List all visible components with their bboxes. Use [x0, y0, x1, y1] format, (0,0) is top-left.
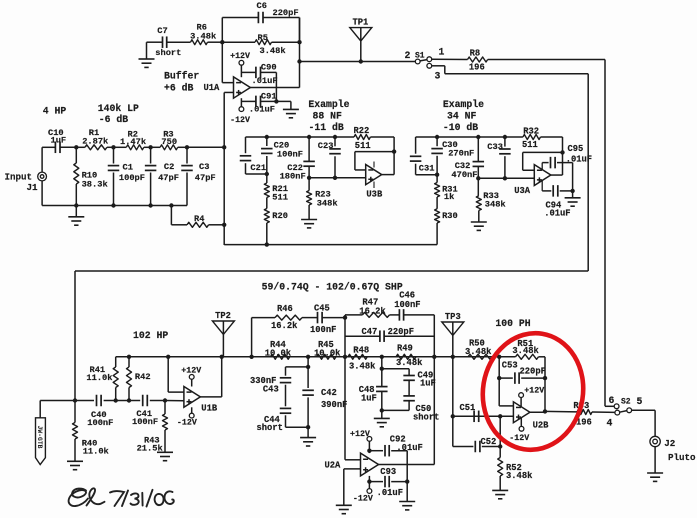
svg-text:R48: R48 [353, 346, 369, 356]
wire J1 bottom to ground rail [41, 181, 43, 206]
node C33 top [503, 135, 507, 139]
resistor R40 11.0k [74, 401, 76, 423]
resistor R6 3.48k [191, 40, 208, 45]
svg-text:6: 6 [609, 395, 615, 406]
capacitor C43 330nF [286, 366, 309, 368]
resistor R33 348k [477, 178, 479, 196]
svg-text:10.0k: 10.0k [314, 348, 341, 358]
wire rail right end down to U3B output [393, 137, 395, 175]
wire C22/C23 line to U3B plus [309, 177, 366, 179]
node C93 tap [367, 479, 371, 483]
wire U2B plus input line [453, 415, 514, 417]
svg-text:C31: C31 [419, 164, 435, 174]
svg-text:140k LP: 140k LP [98, 103, 139, 114]
svg-text:R22: R22 [354, 126, 370, 136]
capacitor C94 .01uF [542, 190, 551, 192]
svg-text:C90: C90 [261, 63, 277, 73]
svg-text:-12V: -12V [509, 434, 529, 443]
svg-text:C52: C52 [481, 437, 497, 447]
svg-text:390nF: 390nF [321, 400, 347, 410]
svg-text:C51: C51 [460, 403, 476, 413]
ground for C90/C91 [276, 100, 291, 102]
svg-text:1k: 1k [444, 192, 454, 202]
red annotation ellipse [474, 326, 591, 457]
power stub top U3A [541, 163, 543, 171]
svg-text:C21: C21 [250, 163, 266, 173]
node U3B feedback/output [392, 149, 396, 153]
wire U2B output vertical [544, 357, 546, 412]
capacitor C6 220pF feedback [221, 18, 223, 43]
capacitor C91 .01uF [241, 100, 255, 102]
switch S1 [415, 59, 420, 64]
svg-text:C95: C95 [568, 144, 584, 154]
svg-text:.01uF: .01uF [249, 105, 275, 115]
node R1/C1 [111, 145, 115, 149]
node input line / R10 [74, 145, 78, 149]
svg-text:220pF: 220pF [388, 327, 414, 337]
svg-text:2.87k: 2.87k [82, 136, 108, 146]
resistor R23 348k [308, 178, 310, 191]
node rail/R10-ground [74, 203, 78, 207]
svg-text:Example: Example [443, 99, 484, 110]
wire U3A minus feedback [523, 169, 535, 171]
svg-text:U2A: U2A [325, 461, 342, 471]
svg-text:100nF: 100nF [310, 325, 336, 335]
wire example1 top rail [246, 136, 355, 138]
node C23 bottom [333, 176, 337, 180]
node R42 top [127, 355, 131, 359]
wire S2 pin5 to J2 [632, 409, 656, 411]
capacitor C50 short [408, 380, 410, 395]
node R43 [163, 398, 167, 402]
svg-text:+12V: +12V [524, 387, 544, 396]
svg-text:+12V: +12V [181, 367, 201, 376]
node C44/C42 bottom [306, 425, 310, 429]
svg-text:2: 2 [405, 50, 411, 61]
svg-text:U2B: U2B [533, 421, 550, 431]
svg-text:1uF: 1uF [361, 394, 377, 404]
wire U2B minus input [499, 405, 513, 407]
svg-text:38.3k: 38.3k [82, 180, 108, 190]
capacitor C7 short [147, 41, 163, 43]
resistor R20 [266, 198, 268, 209]
capacitor C47 220pF [345, 335, 380, 337]
svg-text:C1: C1 [123, 163, 133, 173]
svg-text:196: 196 [469, 63, 485, 73]
node R5 right [297, 40, 301, 44]
svg-text:TP1: TP1 [353, 17, 369, 27]
node C49 row tap [380, 367, 384, 371]
resistor R53 196 [577, 410, 592, 415]
op-amp U3A [534, 165, 551, 186]
svg-text:R20: R20 [272, 211, 288, 221]
svg-text:-12V: -12V [177, 419, 197, 428]
svg-text:750: 750 [161, 137, 177, 147]
terminal +12V of U2B [519, 393, 524, 398]
resistor R51 3.48k feedback [499, 356, 515, 358]
svg-text:Example: Example [308, 99, 349, 110]
capacitor C45 100nF [302, 317, 317, 319]
resistor R2 1.47k [114, 146, 127, 148]
switch S2 [605, 405, 614, 407]
capacitor C44 short [285, 385, 287, 407]
svg-text:47pF: 47pF [195, 173, 216, 183]
power stub bottom U3A [541, 180, 543, 191]
svg-text:16.2k: 16.2k [359, 306, 386, 316]
svg-text:100nF: 100nF [87, 418, 113, 428]
svg-text:R4: R4 [194, 214, 204, 224]
terminal +12V of U1B [189, 375, 194, 380]
node right vertical main [432, 355, 436, 359]
capacitor C32 470nF [477, 137, 479, 162]
node C92 tap [367, 449, 371, 453]
test point TP2 [212, 321, 234, 334]
ground under R40 [67, 460, 83, 462]
power stubs U3B [373, 162, 375, 168]
svg-text:1uF: 1uF [51, 136, 67, 146]
svg-text:C93: C93 [380, 467, 396, 477]
node R2/C2 [148, 145, 152, 149]
resistor R48 3.48k [348, 354, 367, 359]
svg-text:C46: C46 [399, 291, 415, 301]
svg-text:R46: R46 [277, 304, 293, 314]
node C42 top [306, 355, 310, 359]
svg-text:U3A: U3A [514, 186, 531, 196]
svg-text:.01uF: .01uF [544, 209, 570, 219]
svg-text:1uF: 1uF [420, 379, 436, 389]
wire example2 top rail [416, 136, 523, 138]
capacitor C23 [334, 137, 336, 146]
node TP3/C51 drop [451, 355, 455, 359]
wire example1 bottom rail [224, 244, 437, 246]
capacitor C10 1uF [42, 146, 55, 148]
node R4 right on plus-vertical [222, 223, 226, 227]
svg-text:3.48k: 3.48k [396, 358, 423, 368]
svg-text:34 NF: 34 NF [447, 110, 477, 121]
node R20 bottom rail [265, 242, 269, 246]
svg-text:C23: C23 [318, 141, 334, 151]
svg-text:100pF: 100pF [119, 173, 145, 183]
node R46/R47 junction [343, 315, 347, 319]
connector JW-GTB [39, 401, 41, 418]
svg-text:R49: R49 [397, 344, 413, 354]
svg-text:348k: 348k [317, 199, 338, 209]
resistor R50 3.48k [468, 354, 492, 359]
op-amp U2A [361, 453, 379, 476]
capacitor C3 47pF [186, 147, 188, 163]
svg-text:180nF: 180nF [280, 171, 306, 181]
resistor R41 11.0k [115, 357, 117, 367]
svg-text:Input: Input [5, 172, 33, 183]
svg-text:88 NF: 88 NF [313, 110, 343, 121]
svg-text:C7: C7 [157, 26, 167, 36]
svg-text:-11 dB: -11 dB [309, 122, 344, 133]
svg-text:4 HP: 4 HP [43, 106, 67, 117]
wire signal line bottom section [40, 400, 94, 402]
node C53 right [543, 376, 547, 380]
svg-text:1.47k: 1.47k [120, 137, 146, 147]
node rail/R4 drop [169, 203, 173, 207]
capacitor C49 1uF [382, 368, 409, 370]
node C33 bottom [503, 176, 507, 180]
wire long feed line from S1 pin3 to bottom section [75, 270, 588, 272]
test point TP3 [442, 322, 464, 335]
wire rail right end down to U3A output [562, 137, 564, 175]
terminal -12V of U1B [189, 413, 194, 418]
wire U2B minus vertical [498, 357, 500, 406]
resistor R44 10.0k [270, 354, 289, 359]
wire plus input vertical of U1A [224, 91, 233, 93]
node R3/C3 [185, 145, 189, 149]
svg-text:3.48k: 3.48k [506, 471, 533, 481]
ground under C48 [381, 410, 383, 418]
svg-text:3.48k: 3.48k [512, 346, 539, 356]
wire main bottom line [116, 356, 500, 358]
wire C92/C93 join [406, 451, 408, 482]
capacitor C22 180nF [308, 137, 310, 161]
resistor R42 [128, 357, 130, 367]
node R41 bottom [114, 398, 118, 402]
node R6/R5/minus junction [220, 40, 224, 44]
svg-text:3.48k: 3.48k [260, 46, 286, 56]
node mid vertical main [343, 355, 347, 359]
wire U2A minus input from mid vertical [345, 459, 361, 461]
ground for C92/C93 [406, 482, 408, 502]
svg-text:11.0k: 11.0k [83, 447, 109, 457]
node left branch of feedback row [249, 355, 253, 359]
node U1B minus drop [166, 355, 170, 359]
svg-text:-12V: -12V [230, 116, 250, 125]
capacitor C51 [473, 411, 475, 423]
svg-text:+6 dB: +6 dB [164, 82, 194, 93]
capacitor C33 [504, 137, 506, 147]
wire right vertical C46/C47 to main and U2A out [433, 315, 435, 465]
svg-text:16.2k: 16.2k [271, 321, 298, 331]
svg-text:C53: C53 [502, 361, 518, 371]
svg-text:3: 3 [435, 70, 441, 81]
svg-text:1: 1 [439, 46, 445, 57]
svg-text:R8: R8 [470, 49, 481, 59]
resistor R43 21.5k [164, 401, 166, 415]
svg-text:U1B: U1B [201, 404, 218, 414]
wire U3B output [382, 174, 394, 176]
ground for C94/C95 [572, 191, 574, 198]
resistor R30 [436, 197, 438, 209]
node C22 top [307, 135, 311, 139]
svg-text:100nF: 100nF [132, 417, 158, 427]
resistor R8 196 [432, 58, 468, 60]
svg-text:Buffer: Buffer [164, 71, 199, 82]
test point TP1 [350, 28, 372, 41]
wire U1B output [200, 396, 221, 398]
node C52/R52 top [498, 414, 502, 418]
node C32 top [476, 135, 480, 139]
capacitor C1 100pF [113, 147, 115, 163]
capacitor C40 100nF [96, 395, 98, 407]
ground under J2 [654, 447, 656, 473]
wire right vertical pin3 to filter input [587, 74, 589, 271]
resistor R1 2.87k [76, 146, 85, 148]
wire S1 pin3 path [432, 65, 445, 67]
svg-text:3.48k: 3.48k [349, 362, 376, 372]
wire U3B minus feedback [355, 169, 366, 171]
capacitor C20 100nF [266, 137, 268, 146]
svg-text:C2: C2 [164, 162, 174, 172]
wire J1 top to input line [41, 147, 43, 172]
svg-text:Pluto: Pluto [668, 452, 696, 463]
svg-text:J1: J1 [27, 182, 39, 193]
svg-text:4: 4 [607, 418, 613, 429]
node C43 row tap [306, 365, 310, 369]
terminal -12V of U2B [519, 426, 524, 431]
terminal +12V of U2A [367, 437, 372, 442]
wire C42 branch [307, 357, 309, 388]
node U1B output [220, 355, 224, 359]
node C30 top [435, 135, 439, 139]
capacitor C53 220pF [499, 377, 513, 379]
capacitor C90 .01uF [241, 71, 255, 73]
svg-text:TP2: TP2 [215, 311, 231, 321]
resistor R47 16.2k [344, 315, 346, 318]
svg-text:-12V: -12V [353, 495, 373, 504]
resistor R22 511 [354, 135, 370, 140]
svg-text:U3B: U3B [366, 190, 383, 200]
resistor R46 16.2k [252, 317, 275, 319]
svg-text:JW-GTB: JW-GTB [36, 425, 43, 448]
capacitor C95 .01uF [542, 162, 548, 164]
op-amp U3B [366, 165, 382, 185]
svg-text:short: short [155, 48, 181, 58]
resistor R31 1k [436, 175, 438, 183]
capacitor C30 270nF [436, 137, 438, 146]
svg-text:100 PH: 100 PH [495, 318, 530, 329]
svg-text:-10 dB: -10 dB [443, 122, 478, 133]
svg-text:511: 511 [272, 193, 288, 203]
wire U1A output [250, 87, 299, 89]
ground under R43 [157, 451, 173, 453]
node C20 top [265, 135, 269, 139]
wire right vertical from R8 to S2 pin6 [604, 60, 606, 407]
op-amp U1A buffer [234, 77, 251, 98]
terminal -12V of U1A [239, 107, 244, 112]
capacitor C48 1uF [376, 386, 388, 388]
svg-text:short: short [413, 413, 439, 423]
capacitor C41 100nF [142, 395, 144, 407]
svg-text:R5: R5 [258, 33, 268, 43]
svg-text:+12V: +12V [350, 430, 370, 439]
svg-text:220pF: 220pF [273, 8, 299, 18]
svg-text:-6 dB: -6 dB [99, 114, 129, 125]
capacitor C31 [415, 137, 417, 154]
svg-text:5: 5 [637, 396, 643, 407]
svg-text:.01uF: .01uF [377, 488, 403, 498]
capacitor C46 100nF [390, 314, 400, 316]
wire left vertical of R46 row [251, 318, 253, 357]
wire R52 vertical [499, 416, 501, 457]
svg-text:100nF: 100nF [394, 300, 420, 310]
resistor R4 [171, 224, 187, 226]
svg-text:J2: J2 [664, 438, 675, 449]
wire C90-C91 join [275, 72, 277, 101]
wire C32/C33 line to U3A plus [478, 177, 534, 179]
capacitor C93 .01uF [369, 481, 383, 483]
svg-text:C42: C42 [321, 388, 337, 398]
wire mid vertical R46/R47 to main and U2A minus [344, 318, 346, 460]
node C48/C50 bottom [380, 408, 384, 412]
ground under C42 [307, 427, 309, 437]
wire U1B plus input [165, 400, 184, 402]
ground for C7 [146, 42, 148, 59]
svg-text:R30: R30 [442, 211, 458, 221]
capacitor C92 .01uF [369, 450, 383, 452]
wire U3A output [551, 174, 563, 176]
svg-text:220pF: 220pF [520, 367, 546, 377]
svg-text:C33: C33 [487, 142, 503, 152]
svg-text:102 HP: 102 HP [133, 330, 168, 341]
svg-text:U1A: U1A [204, 83, 221, 93]
node C48 top [380, 355, 384, 359]
resistor R49 3.48k [396, 354, 416, 359]
wire main output line [300, 61, 416, 63]
svg-text:TP3: TP3 [445, 312, 461, 322]
node R40 [73, 398, 77, 402]
connector J1 input jack [38, 172, 47, 181]
ground under R52 [492, 489, 508, 491]
svg-text:C3: C3 [199, 162, 209, 172]
svg-text:C43: C43 [263, 385, 279, 395]
resistor R10 38.3k [75, 147, 77, 163]
node C31/C30/R31 [435, 173, 439, 177]
resistor R32 511 [523, 135, 541, 140]
svg-text:S1: S1 [415, 51, 425, 60]
svg-text:R42: R42 [135, 372, 151, 382]
svg-text:348k: 348k [485, 200, 506, 210]
node U1A output to main line [297, 59, 301, 63]
svg-text:270nF: 270nF [448, 149, 474, 159]
capacitor C42 390nF [302, 389, 314, 391]
node C51 drop on TP3 vertical [452, 357, 454, 447]
resistor R45 10.0k [317, 354, 336, 359]
svg-text:C91: C91 [261, 92, 277, 102]
capacitor C52 [474, 441, 476, 453]
svg-text:11.0k: 11.0k [86, 373, 112, 383]
svg-text:59/0.74Q - 102/0.67Q SHP: 59/0.74Q - 102/0.67Q SHP [262, 281, 403, 292]
node U3A feedback/output [560, 150, 564, 154]
svg-text:3.48k: 3.48k [190, 31, 216, 41]
ground under R33 [471, 221, 487, 223]
svg-text:S2: S2 [621, 398, 631, 407]
op-amp U1B [184, 387, 200, 408]
wire U2A plus input to ground [344, 468, 361, 470]
wire U1B minus input [167, 357, 169, 392]
wire minus input of U1A [222, 82, 233, 84]
resistor R52 3.48k [498, 458, 503, 477]
ground rail of input section [42, 205, 187, 207]
ground under R23 [301, 219, 317, 221]
svg-text:R32: R32 [523, 127, 539, 137]
svg-text:C6: C6 [257, 1, 267, 11]
wire C48 branch [381, 357, 383, 386]
svg-text:+12V: +12V [230, 52, 250, 61]
ground U2A plus [336, 504, 352, 506]
svg-text:3.48k: 3.48k [465, 347, 492, 357]
capacitor C21 [245, 137, 247, 153]
node C23 top [333, 135, 337, 139]
svg-text:511: 511 [355, 141, 371, 151]
op-amp U2B [513, 402, 530, 423]
node U2B minus branch [497, 355, 501, 359]
node C22/R23 [307, 176, 311, 180]
